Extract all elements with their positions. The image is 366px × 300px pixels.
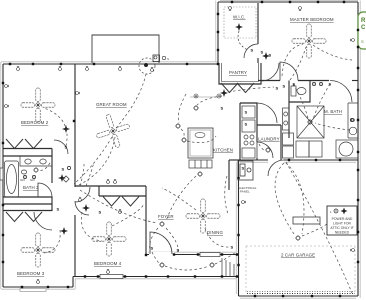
svg-text:BEDROOM 3: BEDROOM 3 — [17, 271, 45, 276]
svg-text:FOYER: FOYER — [158, 214, 174, 219]
wall garage top — [239, 159, 269, 161]
vanity bath2 — [20, 156, 52, 166]
svg-text:BEDROOM 2: BEDROOM 2 — [21, 120, 49, 125]
wall wic left — [217, 2, 219, 64]
laundry door — [257, 142, 273, 158]
arc great room fan to ceiling circle — [116, 74, 146, 128]
mbath fixtures — [291, 86, 358, 158]
bedroom3 window sill — [20, 289, 46, 292]
svg-text:GFI: GFI — [20, 178, 25, 182]
arc master low — [290, 47, 306, 80]
svg-text:R: R — [361, 18, 366, 24]
wic shelves dashed — [224, 7, 256, 38]
closet vees bedroom4 — [103, 197, 120, 207]
svg-text:2 CAR GARAGE: 2 CAR GARAGE — [281, 253, 315, 258]
left wall window box — [0, 168, 3, 180]
arc dining east wires — [225, 176, 228, 214]
switches — [57, 48, 332, 253]
wall bedroom2 right x75 — [74, 64, 76, 187]
svg-text:S: S — [361, 39, 364, 44]
svg-text:LIGHT FOR: LIGHT FOR — [333, 222, 352, 226]
laundry washer dryer — [283, 133, 294, 158]
wall porch top — [146, 254, 238, 256]
wall bottom bedroom4 and porch — [73, 276, 238, 278]
ceiling fan dining — [186, 199, 220, 233]
arc master fan to right wall — [313, 45, 352, 60]
wall bedroom4 left x75 lower — [74, 215, 76, 277]
bedroom4 window — [100, 275, 123, 279]
arc great room to fan — [74, 137, 112, 184]
porch steps right — [222, 258, 234, 276]
wall garage left — [238, 160, 240, 296]
wall top of left wing — [3, 63, 219, 65]
toilet bath2 — [21, 170, 26, 174]
porch sidelight window — [200, 253, 220, 257]
wall master south y80.5 — [258, 80, 280, 82]
wall laundry left x257 — [256, 125, 258, 142]
mbath left vanity chase — [283, 108, 290, 130]
star light hall south 2 — [60, 227, 68, 235]
toilet mbath — [291, 86, 296, 96]
arc foyer light wires — [166, 228, 178, 252]
mbath light — [307, 119, 313, 125]
bath2 door — [38, 183, 52, 197]
wall mbath wc compartment — [289, 81, 310, 103]
arc mbath — [293, 84, 308, 118]
arc dining fan to foyer — [162, 188, 196, 210]
garage entry door — [268, 160, 284, 176]
tub bath2 — [5, 161, 19, 197]
svg-text:NEEDED: NEEDED — [335, 231, 350, 235]
arc kitchen — [178, 94, 186, 123]
arc master door to fan — [282, 44, 303, 76]
bedroom3 door — [34, 212, 52, 230]
star light hall south 1 — [82, 204, 90, 212]
wall laundry top y125 — [257, 124, 281, 126]
svg-text:GREAT ROOM: GREAT ROOM — [96, 102, 127, 107]
pantry vees — [221, 83, 238, 93]
wall foyer west x146 — [145, 186, 147, 255]
arc bedroom3 — [44, 230, 60, 253]
wall kitchen cabinet column — [240, 103, 257, 125]
wall left exterior — [2, 64, 4, 287]
arc dining fan to switch — [205, 228, 230, 247]
arc laundry — [259, 144, 265, 150]
foyer light — [159, 221, 165, 227]
svg-text:BATH 2: BATH 2 — [23, 185, 39, 190]
wall hall south / bedroom4 north y186 — [75, 185, 146, 187]
front door — [150, 232, 172, 254]
svg-text:POWER AND: POWER AND — [332, 217, 353, 221]
wall master wing top — [218, 1, 358, 3]
wall step bedroom3/4 — [72, 277, 74, 288]
svg-text:GFI: GFI — [30, 178, 35, 182]
wall bath2 right — [51, 156, 53, 183]
arc porch lights — [152, 252, 159, 263]
svg-text:S: S — [167, 57, 169, 61]
svg-text:PANEL: PANEL — [240, 190, 250, 194]
door arcs — [34, 44, 352, 254]
pendant light 1 — [194, 94, 198, 98]
star light bedroom hall — [58, 174, 66, 182]
arc bedroom2 — [44, 108, 67, 146]
wall laundry right x281 — [280, 125, 282, 160]
tub mbath — [336, 140, 358, 158]
pantry door arc simple — [261, 63, 279, 81]
wall mbath west x289 — [288, 81, 290, 139]
kitchen hall door — [257, 103, 277, 123]
svg-text:KITCHEN: KITCHEN — [213, 148, 233, 153]
great room dashed circle fixture — [139, 58, 155, 74]
pendant light 2 — [217, 94, 221, 98]
svg-text:M. BATH: M. BATH — [324, 109, 342, 114]
shower mbath — [297, 106, 324, 138]
svg-text:ATTIC ONLY IF: ATTIC ONLY IF — [330, 226, 353, 230]
svg-text:MASTER BEDROOM: MASTER BEDROOM — [290, 17, 334, 22]
bar counter line — [190, 96, 218, 98]
attic stair rect near foyer — [189, 160, 212, 168]
electrical panel box — [238, 161, 253, 180]
laundry light — [265, 147, 271, 153]
garage door dotted — [247, 293, 355, 295]
ceiling fan bedroom3 — [21, 233, 55, 267]
master bath door — [330, 81, 352, 103]
ceiling fan bedroom2 — [21, 88, 55, 122]
master/bath door opening gap — [269, 158, 284, 163]
wic star light — [235, 23, 243, 31]
hall light — [197, 171, 203, 177]
closet vees bedroom2 — [6, 139, 23, 149]
room labels — [17, 15, 342, 277]
porch top door opening gap — [149, 252, 174, 257]
wall bath2 bottom — [3, 197, 52, 211]
wall kitchen/dining x229 — [228, 160, 230, 190]
bath2 fixtures — [5, 156, 53, 197]
arc bedroom4 fan to closet — [112, 204, 144, 226]
arc hall wires up — [80, 164, 84, 186]
green revision note box top right — [358, 12, 366, 49]
wall bedroom2 closet band — [3, 148, 52, 150]
kitchen cans — [175, 123, 181, 129]
master bedroom door — [280, 62, 298, 81]
wall bottom bedroom3 — [3, 286, 73, 288]
garage ceiling dashed outline — [246, 246, 355, 292]
bedroom4 entry arcs — [75, 187, 90, 202]
kitchen appliances — [242, 106, 255, 158]
arc garage long diagonal — [286, 162, 352, 293]
svg-text:DINING: DINING — [207, 230, 223, 235]
bath2 light — [33, 167, 39, 173]
ceiling fan master — [292, 24, 326, 58]
wall bedroom4 closet band — [98, 186, 100, 196]
svg-text:W.I.C.: W.I.C. — [233, 15, 246, 20]
bump-out rect above great room — [92, 35, 159, 63]
closet vees bedroom3 — [6, 212, 23, 222]
kitchen island — [188, 128, 213, 158]
svg-text:PANTRY: PANTRY — [229, 70, 247, 75]
svg-text:C: C — [361, 25, 366, 31]
cabinets mbath — [296, 141, 309, 157]
note box attic — [327, 206, 357, 235]
bedroom2 door — [54, 140, 68, 154]
arc bedroom4 — [81, 212, 102, 241]
star light great room hall — [62, 125, 70, 133]
garage opener rail — [293, 217, 320, 224]
star light kitchen hall — [220, 89, 228, 97]
garage light — [295, 235, 301, 241]
wic door — [244, 44, 258, 58]
svg-text:BEDROOM 4: BEDROOM 4 — [94, 261, 122, 266]
wiring arcs dashed — [39, 44, 352, 293]
arc garage entry fan — [275, 163, 294, 234]
porch lights — [159, 262, 165, 268]
star light master hall — [262, 52, 270, 60]
arc bath2 — [39, 163, 50, 170]
arc kitchen hall to mbath switches — [228, 87, 274, 92]
wall bedroom3 closet band — [3, 203, 52, 205]
wall wic right x258 — [257, 3, 259, 44]
ceiling fan great room — [92, 110, 135, 153]
arc garage to note box — [302, 224, 327, 236]
svg-text:LAUNDRY: LAUNDRY — [258, 137, 280, 142]
vanity mbath right — [348, 103, 358, 138]
wall pantry box — [219, 63, 261, 84]
ceiling fan bedroom4 — [92, 222, 126, 256]
wall garage bottom — [239, 295, 359, 297]
wall right exterior — [357, 2, 359, 296]
